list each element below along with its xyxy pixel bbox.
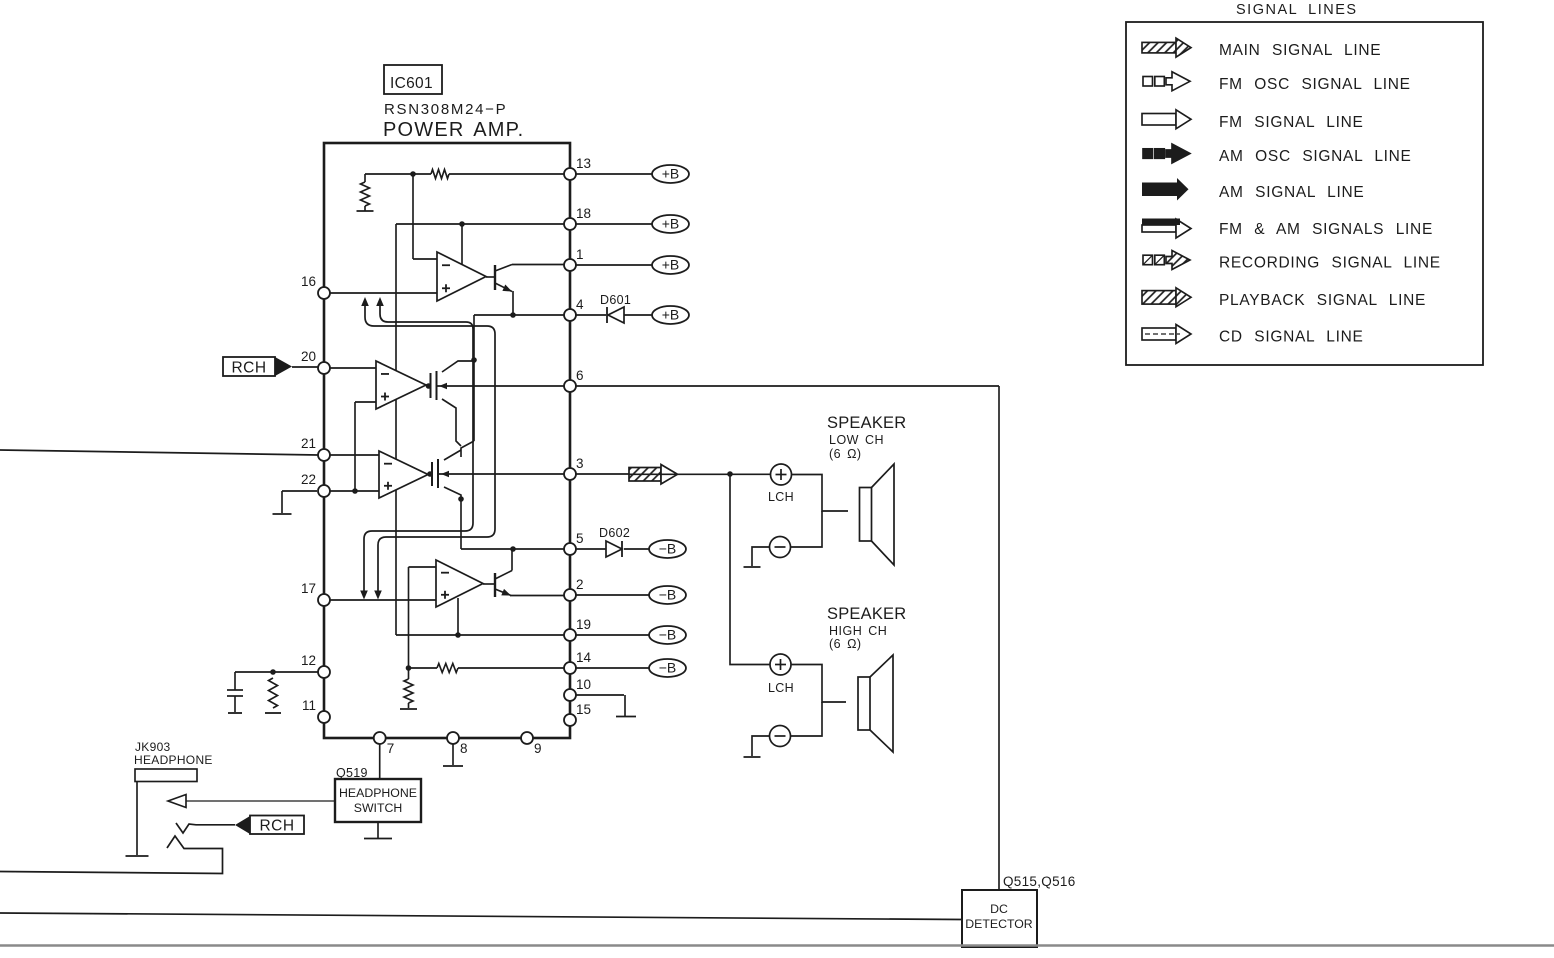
svg-text:20: 20 <box>301 349 316 364</box>
svg-text:LOW CH: LOW CH <box>829 433 884 447</box>
svg-text:9: 9 <box>534 741 542 756</box>
svg-text:5: 5 <box>576 531 584 546</box>
svg-text:HEADPHONE: HEADPHONE <box>339 786 417 800</box>
svg-text:POWER AMP.: POWER AMP. <box>383 119 524 141</box>
svg-text:−B: −B <box>659 587 677 603</box>
svg-text:21: 21 <box>301 436 316 451</box>
svg-text:1: 1 <box>576 247 584 262</box>
svg-text:MAIN SIGNAL LINE: MAIN SIGNAL LINE <box>1219 42 1381 59</box>
svg-text:RECORDING SIGNAL LINE: RECORDING SIGNAL LINE <box>1219 255 1441 272</box>
svg-text:D601: D601 <box>600 293 631 307</box>
svg-text:−B: −B <box>659 627 677 643</box>
svg-text:SPEAKER: SPEAKER <box>827 414 906 432</box>
svg-text:SPEAKER: SPEAKER <box>827 605 906 623</box>
svg-text:AM OSC SIGNAL LINE: AM OSC SIGNAL LINE <box>1219 148 1412 165</box>
svg-text:6: 6 <box>576 368 584 383</box>
svg-text:16: 16 <box>301 274 316 289</box>
svg-text:7: 7 <box>387 741 395 756</box>
svg-text:SWITCH: SWITCH <box>354 801 403 815</box>
svg-text:JK903: JK903 <box>135 740 171 754</box>
svg-text:(6 Ω): (6 Ω) <box>829 447 862 461</box>
svg-text:2: 2 <box>576 577 584 592</box>
svg-text:13: 13 <box>576 156 591 171</box>
svg-text:+B: +B <box>662 257 680 273</box>
svg-text:HIGH CH: HIGH CH <box>829 624 887 638</box>
svg-text:Q515,Q516: Q515,Q516 <box>1003 874 1076 889</box>
svg-text:−B: −B <box>659 541 677 557</box>
svg-text:IC601: IC601 <box>390 75 433 92</box>
svg-text:RCH: RCH <box>259 818 294 835</box>
svg-text:+B: +B <box>662 216 680 232</box>
svg-text:−B: −B <box>659 660 677 676</box>
svg-text:17: 17 <box>301 581 316 596</box>
svg-text:RSN308M24−P: RSN308M24−P <box>384 101 507 118</box>
svg-text:PLAYBACK SIGNAL LINE: PLAYBACK SIGNAL LINE <box>1219 292 1426 309</box>
svg-text:HEADPHONE: HEADPHONE <box>134 753 213 767</box>
svg-text:10: 10 <box>576 677 591 692</box>
svg-text:LCH: LCH <box>768 681 794 695</box>
svg-text:14: 14 <box>576 650 592 665</box>
svg-text:12: 12 <box>301 653 316 668</box>
svg-text:FM OSC SIGNAL LINE: FM OSC SIGNAL LINE <box>1219 76 1411 93</box>
svg-text:RCH: RCH <box>231 360 266 377</box>
svg-text:D602: D602 <box>599 526 630 540</box>
svg-text:DC: DC <box>990 902 1008 916</box>
svg-text:+B: +B <box>662 307 680 323</box>
svg-text:SIGNAL LINES: SIGNAL LINES <box>1236 2 1358 18</box>
svg-text:8: 8 <box>460 741 468 756</box>
svg-text:15: 15 <box>576 702 591 717</box>
svg-text:19: 19 <box>576 617 591 632</box>
svg-text:AM SIGNAL LINE: AM SIGNAL LINE <box>1219 184 1364 201</box>
svg-text:3: 3 <box>576 456 584 471</box>
svg-text:+B: +B <box>662 166 680 182</box>
svg-text:LCH: LCH <box>768 490 794 504</box>
svg-text:4: 4 <box>576 297 584 312</box>
svg-text:FM SIGNAL LINE: FM SIGNAL LINE <box>1219 114 1364 131</box>
svg-text:(6 Ω): (6 Ω) <box>829 637 862 651</box>
svg-text:22: 22 <box>301 472 316 487</box>
svg-text:DETECTOR: DETECTOR <box>965 917 1033 931</box>
svg-text:11: 11 <box>302 698 316 713</box>
svg-text:CD SIGNAL LINE: CD SIGNAL LINE <box>1219 329 1364 346</box>
svg-text:18: 18 <box>576 206 591 221</box>
svg-text:FM & AM SIGNALS LINE: FM & AM SIGNALS LINE <box>1219 221 1433 238</box>
